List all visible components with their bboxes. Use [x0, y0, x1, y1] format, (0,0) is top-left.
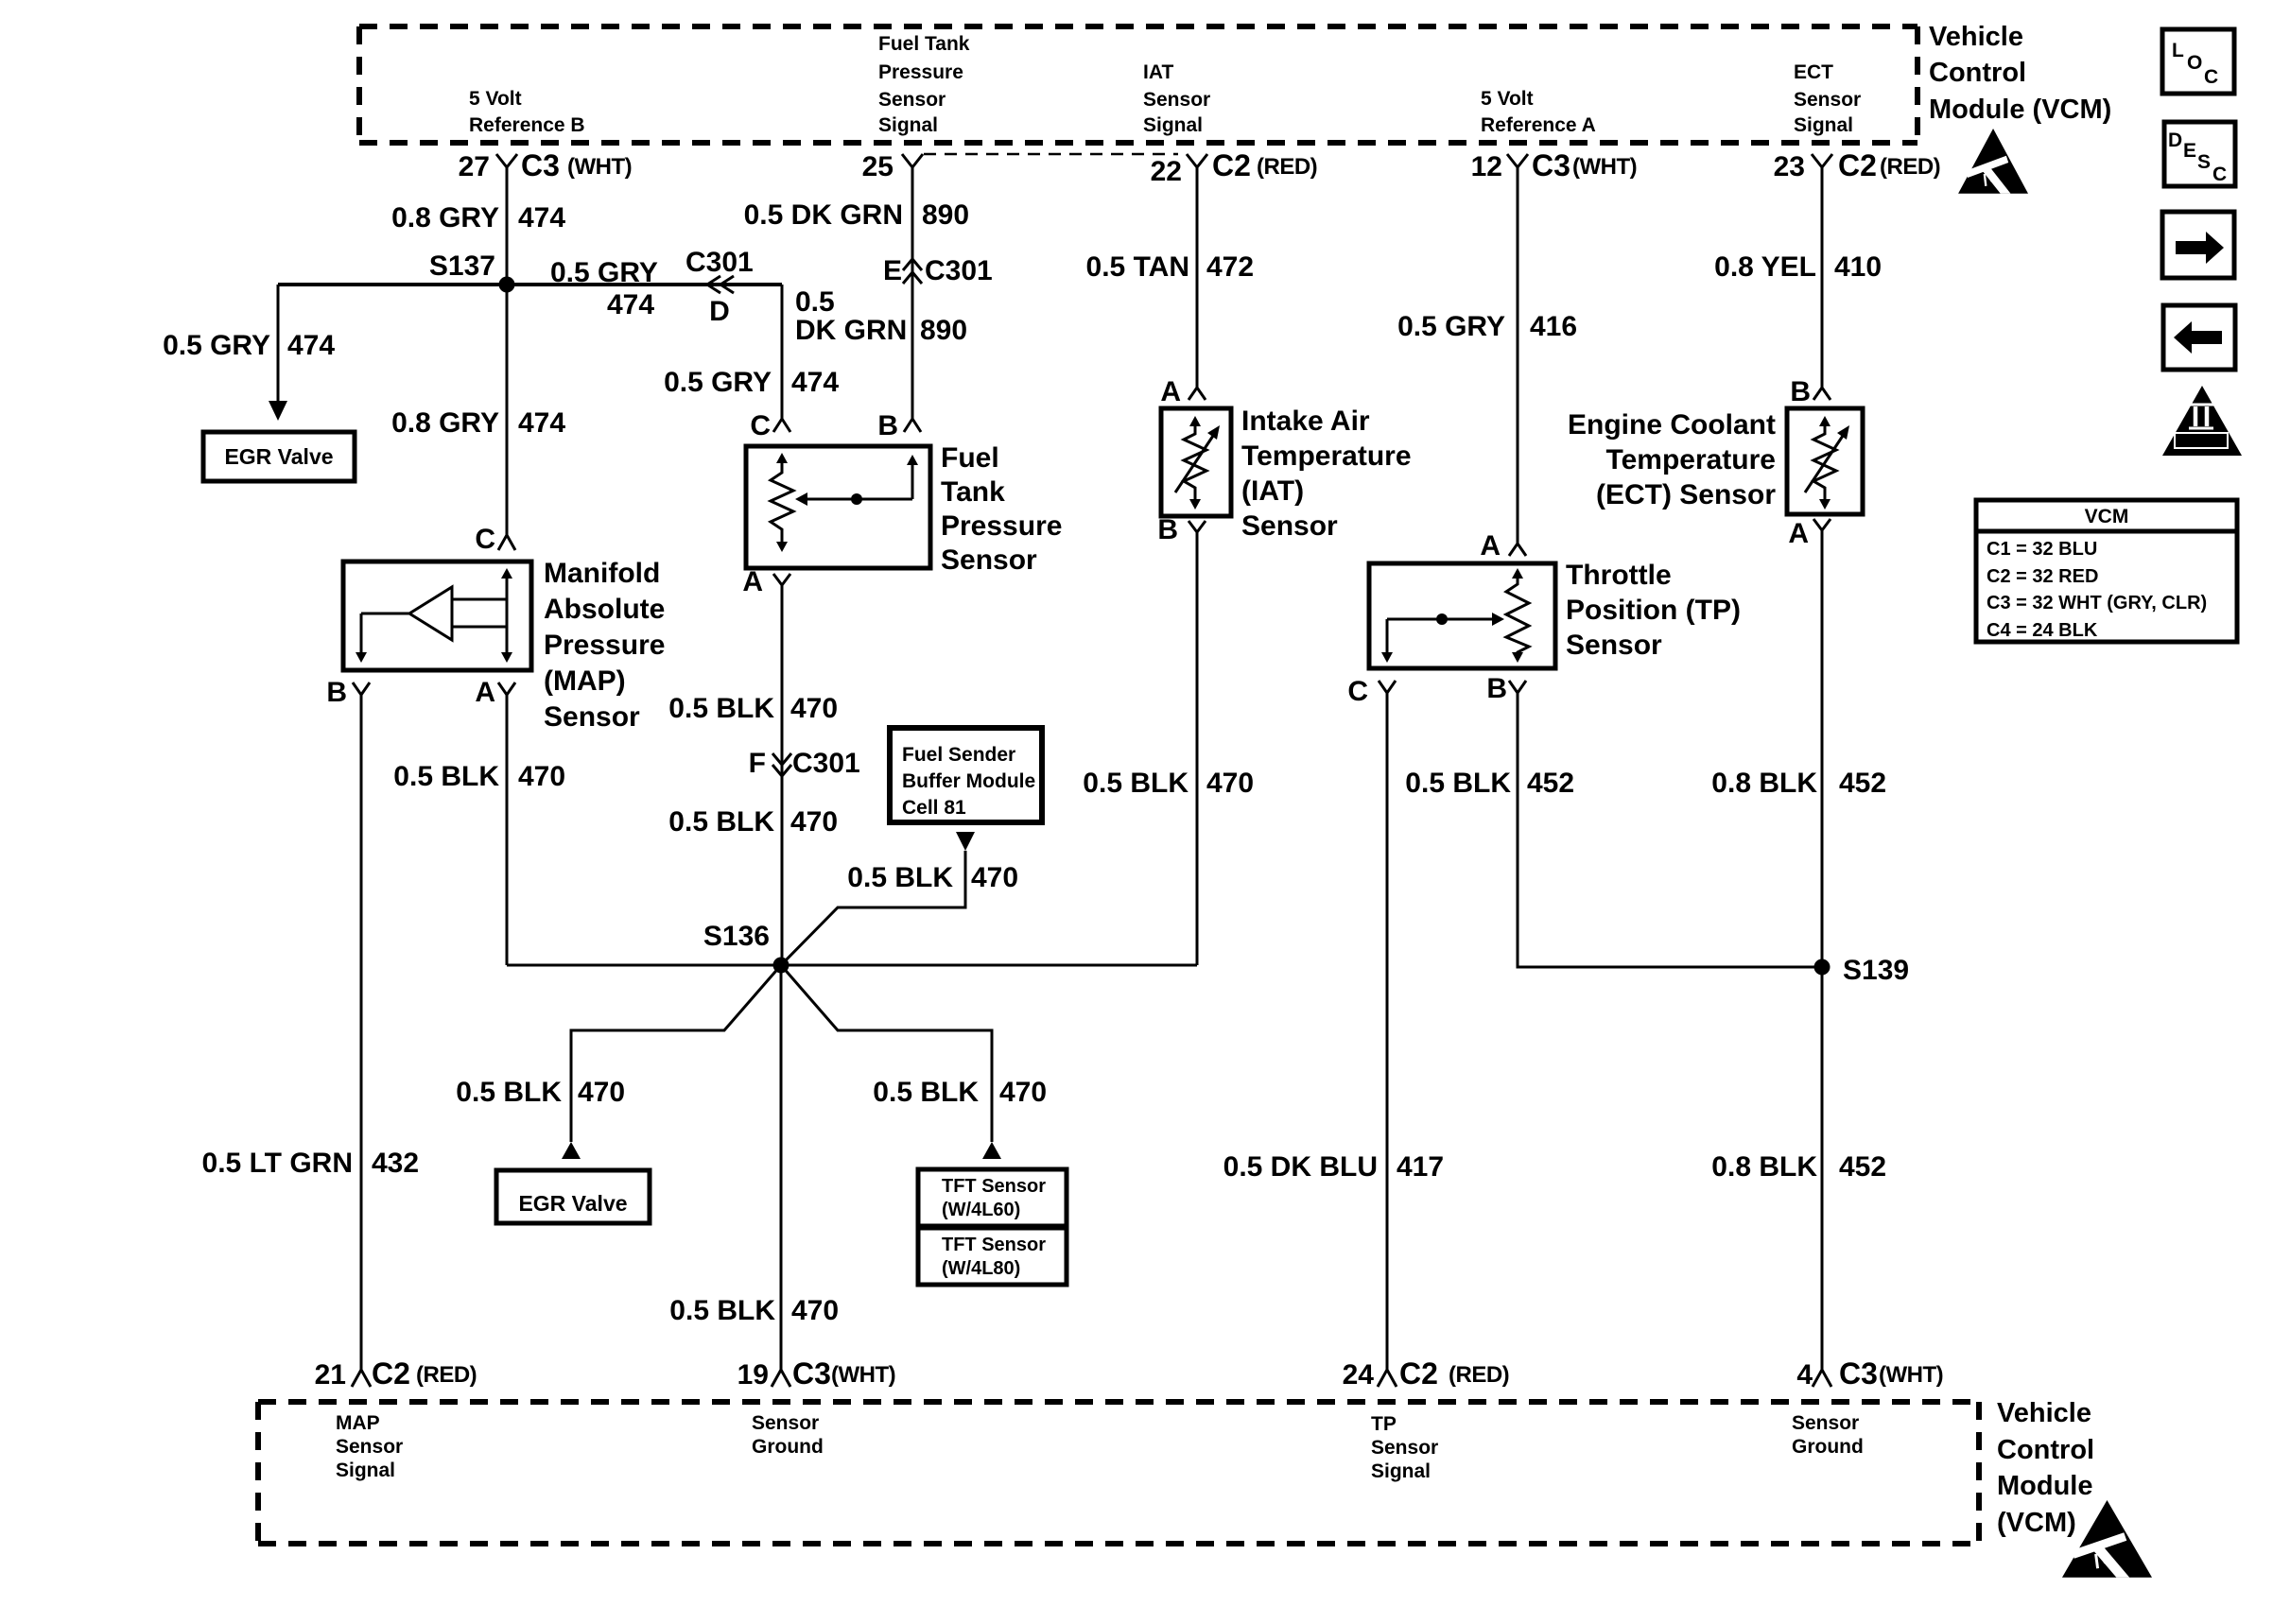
svg-text:(RED): (RED) — [1449, 1362, 1509, 1388]
IAT sensor pin A fork — [1160, 376, 1206, 407]
svg-text:22: 22 — [1151, 156, 1182, 187]
net label MAP Sensor Signal — [336, 1412, 403, 1481]
svg-text:474: 474 — [518, 407, 565, 439]
svg-text:0.5 DK GRN: 0.5 DK GRN — [744, 199, 903, 231]
svg-text:Control: Control — [1929, 58, 2026, 88]
wire MAP B down to pin 21 — [360, 695, 363, 1370]
ECT sensor box — [1787, 408, 1863, 514]
pin 25 — [862, 151, 923, 182]
svg-text:Sensor: Sensor — [1794, 89, 1861, 111]
svg-text:C2: C2 — [372, 1356, 410, 1391]
wire label 0.5 BLK 470 — [1083, 768, 1254, 799]
wire label 0.5 DK GRN 890 — [744, 199, 969, 231]
wire label 0.5 BLK 470 ground — [669, 1295, 839, 1326]
svg-text:Vehicle: Vehicle — [1997, 1398, 2091, 1428]
svg-text:890: 890 — [920, 315, 967, 346]
wire label 0.5 GRY 416 — [1397, 311, 1577, 342]
svg-text:C3: C3 — [1839, 1356, 1878, 1391]
svg-text:TFT Sensor: TFT Sensor — [942, 1176, 1046, 1197]
svg-text:410: 410 — [1834, 251, 1882, 283]
svg-text:27: 27 — [459, 151, 490, 182]
svg-text:C3: C3 — [792, 1356, 831, 1391]
svg-text:Sensor: Sensor — [941, 544, 1037, 576]
svg-text:21: 21 — [315, 1359, 346, 1391]
wire label 0.5 BLK 470 — [393, 761, 565, 792]
wire S137 right to C301 D — [507, 283, 782, 286]
svg-text:0.5 BLK: 0.5 BLK — [668, 693, 774, 724]
pin 24 C2 (RED) — [1343, 1356, 1510, 1391]
label Fuel Tank Pressure Sensor — [941, 442, 1062, 576]
wire label 0.5 GRY 474 — [163, 330, 335, 361]
svg-text:Buffer Module: Buffer Module — [902, 770, 1035, 792]
wire S137 left to EGR branch — [278, 283, 507, 286]
pin 27 C3 (WHT) — [459, 148, 633, 182]
svg-text:DK GRN: DK GRN — [795, 315, 907, 346]
svg-text:470: 470 — [790, 693, 838, 724]
arrow into EGR Valve — [269, 401, 287, 421]
wire label 0.8 BLK 452 lower — [1711, 1151, 1886, 1183]
svg-text:C301: C301 — [685, 247, 754, 278]
wire TP B down and right to S139 — [1518, 693, 1822, 967]
svg-text:890: 890 — [922, 199, 969, 231]
wire label 0.5 BLK 470 tft branch — [873, 1077, 1047, 1108]
svg-text:5 Volt: 5 Volt — [469, 88, 522, 110]
svg-text:C3: C3 — [521, 148, 560, 182]
svg-text:(ECT) Sensor: (ECT) Sensor — [1596, 479, 1776, 510]
wire S136 down right to TFT sensor — [781, 965, 992, 1142]
pin 12 C3 (WHT) — [1471, 148, 1638, 182]
icon arrow right box — [2162, 212, 2234, 278]
icon OBD II triangle — [2162, 386, 2242, 456]
svg-text:C301: C301 — [792, 748, 860, 779]
splice S139 — [1814, 955, 1910, 986]
svg-text:Temperature: Temperature — [1605, 444, 1776, 475]
svg-text:C: C — [2204, 66, 2218, 88]
svg-text:Signal: Signal — [336, 1460, 395, 1481]
svg-text:452: 452 — [1527, 768, 1574, 799]
svg-text:C2 = 32 RED: C2 = 32 RED — [1987, 566, 2098, 587]
svg-text:Module (VCM): Module (VCM) — [1929, 95, 2111, 125]
svg-text:EGR Valve: EGR Valve — [224, 444, 333, 469]
wire label 0.5 DK BLU 417 — [1223, 1151, 1444, 1183]
VCM bottom dashed box — [258, 1402, 1979, 1544]
MAP sensor pin A fork — [475, 677, 515, 708]
svg-text:C3: C3 — [1532, 148, 1570, 182]
svg-text:VCM: VCM — [2085, 506, 2129, 527]
svg-text:470: 470 — [1206, 768, 1254, 799]
svg-text:S: S — [2197, 151, 2211, 173]
svg-text:Fuel: Fuel — [941, 442, 999, 474]
svg-text:19: 19 — [737, 1359, 769, 1391]
svg-text:0.5 TAN: 0.5 TAN — [1086, 251, 1189, 283]
label Manifold Absolute Pressure (MAP) Sensor — [544, 558, 665, 733]
svg-text:Cell 81: Cell 81 — [902, 797, 966, 819]
wire pin12 down to TP A — [1517, 167, 1519, 544]
svg-text:(WHT): (WHT) — [831, 1362, 895, 1388]
EGR Valve box lower — [496, 1170, 650, 1223]
svg-text:0.5 LT GRN: 0.5 LT GRN — [202, 1148, 353, 1179]
svg-text:0.5 BLK: 0.5 BLK — [1405, 768, 1511, 799]
svg-text:Fuel Tank: Fuel Tank — [878, 33, 970, 55]
svg-text:Sensor: Sensor — [1792, 1412, 1859, 1434]
wire label 0.5 LT GRN 432 — [202, 1148, 420, 1179]
svg-text:(RED): (RED) — [1880, 154, 1940, 180]
svg-text:0.8 BLK: 0.8 BLK — [1711, 768, 1817, 799]
svg-text:Tank: Tank — [941, 476, 1005, 508]
svg-text:B: B — [1486, 673, 1507, 704]
svg-text:E: E — [883, 255, 902, 286]
wire IAT B down to ground bus — [1196, 532, 1199, 965]
svg-text:Signal: Signal — [1794, 114, 1853, 136]
svg-text:F: F — [749, 748, 766, 779]
wire TP C down to pin 24 — [1386, 693, 1389, 1370]
wire MAP A down to ground bus — [506, 695, 509, 965]
EGR Valve box — [203, 432, 355, 481]
IAT sensor thermistor — [1175, 416, 1220, 510]
svg-text:Fuel Sender: Fuel Sender — [902, 744, 1015, 766]
wire S136 down left to EGR Valve — [571, 965, 781, 1142]
svg-text:(IAT): (IAT) — [1241, 475, 1304, 507]
svg-text:416: 416 — [1530, 311, 1577, 342]
wire ECT A down through S139 to pin 4 — [1821, 530, 1824, 1370]
svg-text:Intake Air: Intake Air — [1241, 406, 1370, 437]
svg-text:Reference B: Reference B — [469, 114, 585, 136]
svg-text:24: 24 — [1343, 1359, 1375, 1391]
svg-text:TP: TP — [1371, 1413, 1397, 1435]
svg-text:C2: C2 — [1838, 148, 1877, 182]
svg-text:IAT: IAT — [1143, 61, 1173, 83]
svg-text:0.5 BLK: 0.5 BLK — [873, 1077, 979, 1108]
IAT sensor pin B fork — [1157, 514, 1206, 545]
wire label 0.5 DK GRN 890 two line — [795, 286, 967, 346]
svg-text:Signal: Signal — [1143, 114, 1203, 136]
svg-text:0.5 BLK: 0.5 BLK — [456, 1077, 562, 1108]
Fuel Tank Pressure Sensor pin C fork — [750, 410, 790, 441]
svg-text:474: 474 — [791, 367, 839, 398]
svg-text:Sensor: Sensor — [1241, 510, 1338, 542]
icon LOC box — [2162, 29, 2234, 94]
TP sensor pin B fork — [1486, 673, 1526, 704]
pin 23 C2 (RED) — [1774, 148, 1941, 182]
net label 5 Volt Reference A — [1481, 88, 1596, 136]
wire fuel A down to F C301 and S136 — [781, 585, 784, 965]
svg-text:Sensor: Sensor — [878, 89, 946, 111]
svg-text:Position (TP): Position (TP) — [1566, 595, 1741, 626]
VCM connector table — [1976, 500, 2237, 642]
svg-text:(WHT): (WHT) — [1879, 1362, 1943, 1388]
svg-text:(MAP): (MAP) — [544, 665, 626, 697]
wire pin23 down to ECT B — [1821, 167, 1824, 388]
wire label 0.5 BLK 470 — [668, 806, 838, 838]
svg-text:C2: C2 — [1212, 148, 1251, 182]
label Vehicle Control Module (VCM) bottom right — [1997, 1398, 2094, 1538]
svg-text:Signal: Signal — [878, 114, 938, 136]
svg-text:D: D — [2168, 130, 2182, 151]
pin 19 C3 (WHT) — [737, 1356, 896, 1391]
sensor ground bus wire — [507, 964, 1197, 967]
svg-text:470: 470 — [518, 761, 565, 792]
svg-text:Signal: Signal — [1371, 1460, 1431, 1482]
svg-text:Reference A: Reference A — [1481, 114, 1596, 136]
svg-text:0.5 BLK: 0.5 BLK — [669, 1295, 775, 1326]
svg-text:474: 474 — [287, 330, 335, 361]
svg-text:Vehicle: Vehicle — [1929, 22, 2023, 52]
svg-text:4: 4 — [1796, 1359, 1813, 1391]
svg-text:B: B — [877, 410, 898, 441]
svg-text:474: 474 — [607, 289, 654, 320]
Fuel Sender Buffer Module box — [890, 728, 1042, 822]
svg-text:E: E — [2183, 140, 2196, 162]
splice S136 — [703, 921, 789, 974]
TFT Sensor W4L60 box — [918, 1169, 1067, 1226]
svg-text:A: A — [475, 677, 495, 708]
svg-text:Module: Module — [1997, 1471, 2093, 1501]
svg-text:C: C — [2212, 164, 2227, 185]
arrow from Fuel Sender Buffer Module — [956, 832, 975, 851]
pin 21 C2 (RED) — [315, 1356, 477, 1391]
svg-text:Sensor: Sensor — [752, 1412, 819, 1434]
wire label 0.5 BLK 470 buffer branch — [847, 862, 1018, 893]
svg-text:0.8 BLK: 0.8 BLK — [1711, 1151, 1817, 1183]
svg-text:0.8 GRY: 0.8 GRY — [391, 202, 499, 233]
wire label 0.8 GRY 474 second — [391, 407, 565, 439]
svg-text:0.5 DK BLU: 0.5 DK BLU — [1223, 1151, 1378, 1183]
svg-text:Sensor: Sensor — [1566, 630, 1662, 661]
svg-text:Control: Control — [1997, 1435, 2094, 1465]
thin dashed connector boundary — [924, 153, 1178, 156]
TFT Sensor W4L80 box — [918, 1228, 1067, 1285]
net label TP Sensor Signal — [1371, 1413, 1438, 1482]
net label IAT Sensor Signal — [1143, 61, 1210, 136]
svg-text:12: 12 — [1471, 151, 1502, 182]
svg-text:Sensor: Sensor — [1143, 89, 1210, 111]
svg-text:472: 472 — [1206, 251, 1254, 283]
label Intake Air Temperature (IAT) Sensor — [1241, 406, 1412, 542]
svg-text:C: C — [475, 524, 495, 555]
svg-text:0.8 GRY: 0.8 GRY — [391, 407, 499, 439]
svg-text:25: 25 — [862, 151, 894, 182]
splice S137 — [429, 251, 515, 293]
svg-text:470: 470 — [790, 806, 838, 838]
ESD symbol bottom right — [2062, 1500, 2152, 1578]
svg-text:Ground: Ground — [1792, 1436, 1864, 1458]
icon arrow left box — [2163, 305, 2235, 370]
svg-text:TFT Sensor: TFT Sensor — [942, 1235, 1046, 1255]
wire label 0.5 TAN 472 — [1086, 251, 1255, 283]
wire label 0.8 YEL 410 — [1714, 251, 1882, 283]
icon DESC box — [2164, 122, 2235, 186]
net label Fuel Tank Pressure Sensor Signal — [878, 33, 970, 136]
svg-text:OBD II: OBD II — [2182, 434, 2220, 448]
wire label 0.5 BLK 452 — [1405, 768, 1574, 799]
wire label 0.5 BLK 470 egr branch — [456, 1077, 625, 1108]
wire label 0.5 GRY / 474 two lines — [550, 257, 658, 320]
svg-text:A: A — [1160, 376, 1181, 407]
svg-text:(RED): (RED) — [1257, 154, 1317, 180]
label Engine Coolant Temperature (ECT) Sensor — [1568, 409, 1776, 510]
MAP sensor box — [343, 561, 531, 670]
svg-text:470: 470 — [999, 1077, 1047, 1108]
wire pin27 to S137 to MAP C — [506, 167, 509, 535]
svg-text:Ground: Ground — [752, 1436, 824, 1458]
ECT sensor pin A fork — [1788, 518, 1831, 549]
TP sensor pin A fork — [1480, 530, 1526, 561]
svg-text:C: C — [1347, 676, 1368, 707]
svg-text:23: 23 — [1774, 151, 1805, 182]
svg-text:417: 417 — [1397, 1151, 1444, 1183]
connector C301 E chevrons — [883, 255, 993, 286]
svg-text:C4 = 24 BLK: C4 = 24 BLK — [1987, 620, 2098, 641]
svg-text:Pressure: Pressure — [941, 510, 1062, 542]
svg-text:Manifold: Manifold — [544, 558, 660, 589]
svg-text:Temperature: Temperature — [1241, 441, 1412, 472]
ECT sensor thermistor — [1805, 416, 1849, 510]
svg-text:C3 = 32 WHT (GRY, CLR): C3 = 32 WHT (GRY, CLR) — [1987, 593, 2207, 613]
svg-text:(RED): (RED) — [416, 1362, 477, 1388]
wire label 0.5 GRY 474 — [664, 367, 839, 398]
wire C301 D down to Fuel Tank Pressure Sensor C — [781, 285, 784, 419]
ECT sensor pin B fork — [1790, 376, 1831, 407]
svg-text:C2: C2 — [1399, 1356, 1438, 1391]
svg-text:470: 470 — [791, 1295, 839, 1326]
svg-text:(WHT): (WHT) — [1572, 154, 1637, 180]
svg-text:(W/4L80): (W/4L80) — [942, 1258, 1020, 1279]
wire label 0.5 BLK 470 — [668, 693, 838, 724]
Fuel Tank Pressure Sensor pin B fork — [877, 410, 921, 441]
svg-text:0.5 BLK: 0.5 BLK — [1083, 768, 1189, 799]
svg-text:(VCM): (VCM) — [1997, 1508, 2076, 1538]
connector C301 F chevrons — [749, 748, 860, 779]
TP sensor potentiometer — [1381, 568, 1529, 663]
connector C301 D chevrons — [685, 247, 754, 327]
svg-text:O: O — [2187, 52, 2202, 74]
label Throttle Position (TP) Sensor — [1566, 560, 1741, 661]
svg-text:474: 474 — [518, 202, 565, 233]
svg-text:5 Volt: 5 Volt — [1481, 88, 1534, 110]
svg-text:432: 432 — [372, 1148, 419, 1179]
svg-text:MAP: MAP — [336, 1412, 380, 1434]
ESD symbol top right — [1958, 129, 2028, 194]
svg-text:0.5: 0.5 — [795, 286, 835, 318]
wire label 0.8 GRY 474 — [391, 202, 565, 233]
net label 5 Volt Reference B — [469, 88, 585, 136]
svg-text:D: D — [709, 296, 730, 327]
IAT sensor box — [1161, 408, 1231, 516]
svg-text:B: B — [326, 677, 347, 708]
Fuel Tank Pressure Sensor box — [746, 446, 930, 568]
svg-text:Throttle: Throttle — [1566, 560, 1672, 591]
svg-text:A: A — [1480, 530, 1501, 561]
svg-text:452: 452 — [1839, 1151, 1886, 1183]
wire down to EGR Valve — [277, 285, 280, 403]
svg-text:0.5 BLK: 0.5 BLK — [393, 761, 499, 792]
MAP sensor pin B fork — [326, 677, 370, 708]
svg-text:0.5 GRY: 0.5 GRY — [550, 257, 658, 288]
svg-text:0.5 GRY: 0.5 GRY — [1397, 311, 1505, 342]
svg-text:Pressure: Pressure — [878, 61, 963, 83]
TP sensor pin C fork — [1347, 676, 1396, 707]
svg-text:Engine Coolant: Engine Coolant — [1568, 409, 1776, 441]
svg-text:Absolute: Absolute — [544, 594, 665, 625]
net label Sensor Ground left — [752, 1412, 824, 1458]
svg-text:L: L — [2172, 40, 2184, 61]
label Vehicle Control Module (VCM) top right — [1929, 22, 2111, 125]
svg-text:0.5 BLK: 0.5 BLK — [847, 862, 953, 893]
MAP sensor pin C fork — [475, 524, 515, 555]
svg-text:EGR Valve: EGR Valve — [518, 1191, 627, 1216]
svg-text:Sensor: Sensor — [544, 701, 640, 733]
wire S136 up right to Fuel Sender Buffer Module — [781, 851, 965, 965]
svg-text:Pressure: Pressure — [544, 630, 665, 661]
pin 22 C2 (RED) — [1151, 148, 1318, 187]
svg-text:470: 470 — [578, 1077, 625, 1108]
MAP sensor amplifier internals — [356, 568, 512, 663]
svg-text:C301: C301 — [925, 255, 993, 286]
svg-text:Sensor: Sensor — [336, 1436, 403, 1458]
svg-text:0.5 GRY: 0.5 GRY — [664, 367, 772, 398]
svg-text:Sensor: Sensor — [1371, 1437, 1438, 1459]
Fuel Tank Pressure Sensor potentiometer — [771, 453, 918, 552]
pin 4 C3 (WHT) — [1796, 1356, 1943, 1391]
TP sensor box — [1369, 563, 1555, 668]
svg-text:S136: S136 — [703, 921, 770, 952]
Fuel Tank Pressure Sensor pin A fork — [742, 566, 790, 597]
svg-text:0.8 YEL: 0.8 YEL — [1714, 251, 1816, 283]
svg-text:470: 470 — [971, 862, 1018, 893]
svg-text:A: A — [742, 566, 763, 597]
svg-text:452: 452 — [1839, 768, 1886, 799]
wire S136 down to pin 19 — [780, 965, 783, 1370]
svg-text:C1 = 32 BLU: C1 = 32 BLU — [1987, 539, 2097, 560]
VCM top dashed box — [359, 26, 1917, 143]
svg-text:0.5 GRY: 0.5 GRY — [163, 330, 270, 361]
wire pin22 down to IAT A — [1196, 167, 1199, 388]
svg-text:(WHT): (WHT) — [567, 154, 632, 180]
net label ECT Sensor Signal — [1794, 61, 1861, 136]
svg-text:S137: S137 — [429, 251, 495, 282]
net label Sensor Ground right — [1792, 1412, 1864, 1458]
svg-text:A: A — [1788, 518, 1809, 549]
svg-text:ECT: ECT — [1794, 61, 1833, 83]
svg-text:B: B — [1157, 514, 1178, 545]
wire pin25 down to C301 E — [911, 167, 914, 419]
svg-text:B: B — [1790, 376, 1811, 407]
svg-text:S139: S139 — [1843, 955, 1909, 986]
svg-text:(W/4L60): (W/4L60) — [942, 1200, 1020, 1220]
arrow from EGR Valve — [562, 1142, 581, 1159]
arrow from TFT sensor — [982, 1142, 1001, 1159]
wire label 0.8 BLK 452 — [1711, 768, 1886, 799]
svg-text:0.5 BLK: 0.5 BLK — [668, 806, 774, 838]
svg-text:C: C — [750, 410, 771, 441]
